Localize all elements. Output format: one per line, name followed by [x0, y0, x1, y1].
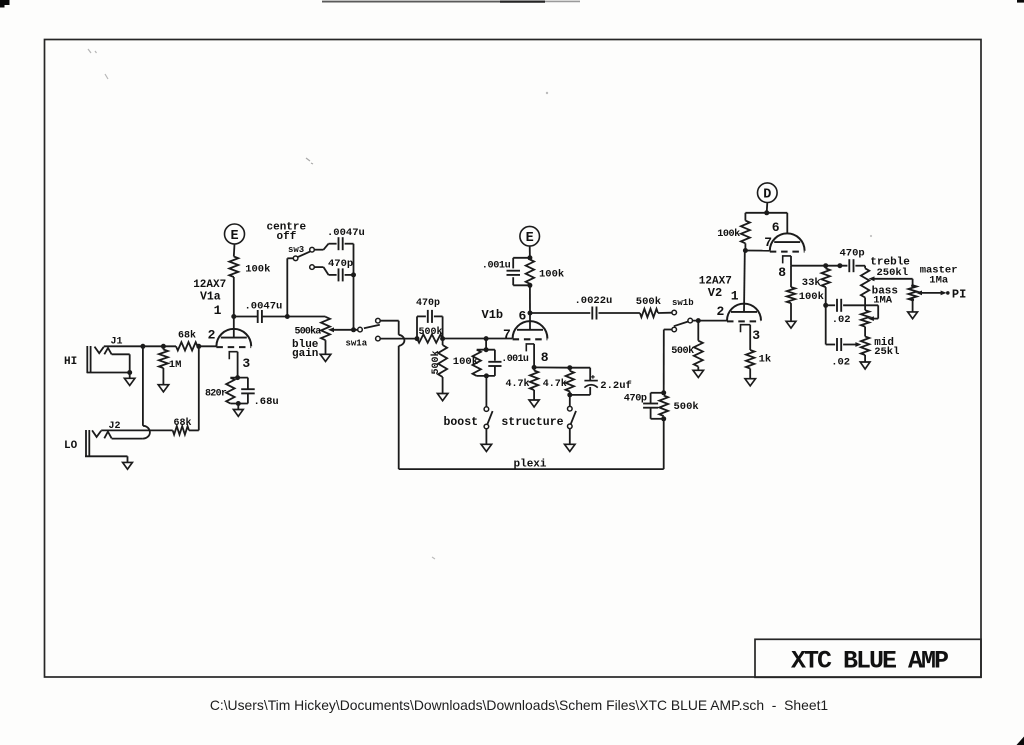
- svg-text:6: 6: [519, 308, 527, 323]
- svg-text:off: off: [277, 231, 297, 243]
- svg-text:E: E: [230, 229, 238, 244]
- svg-text:.02: .02: [832, 314, 851, 326]
- svg-text:V1b: V1b: [482, 308, 504, 322]
- svg-text:V1a: V1a: [200, 291, 221, 304]
- svg-text:1M: 1M: [169, 359, 182, 371]
- svg-text:XTC BLUE AMP: XTC BLUE AMP: [791, 647, 948, 676]
- svg-text:68k: 68k: [178, 330, 196, 342]
- svg-text:500k: 500k: [671, 345, 694, 357]
- svg-text:.68u: .68u: [254, 396, 279, 408]
- svg-text:.001u: .001u: [501, 354, 529, 365]
- svg-text:33k: 33k: [802, 277, 821, 289]
- svg-text:100k: 100k: [245, 264, 270, 276]
- svg-text:25kl: 25kl: [874, 346, 899, 358]
- svg-text:100k: 100k: [539, 268, 564, 280]
- svg-text:12AX7: 12AX7: [193, 279, 226, 291]
- svg-text:8: 8: [541, 350, 549, 365]
- svg-text:470p: 470p: [416, 298, 440, 309]
- svg-text:7: 7: [503, 327, 511, 342]
- svg-text:2.2uf: 2.2uf: [600, 380, 632, 392]
- svg-text:500ka: 500ka: [295, 325, 322, 337]
- svg-text:2: 2: [208, 328, 216, 343]
- svg-text:structure: structure: [501, 416, 563, 429]
- svg-text:E: E: [526, 231, 534, 246]
- svg-text:1Ma: 1Ma: [929, 274, 949, 286]
- svg-text:6: 6: [772, 220, 780, 235]
- svg-text:sw1a: sw1a: [346, 339, 368, 349]
- svg-text:.0022u: .0022u: [575, 295, 613, 307]
- svg-text:1MA: 1MA: [873, 294, 893, 306]
- svg-text:4.7k: 4.7k: [543, 378, 567, 390]
- svg-text:68k: 68k: [174, 417, 192, 429]
- svg-text:gain: gain: [292, 348, 318, 360]
- svg-text:LO: LO: [64, 440, 78, 452]
- svg-text:100k: 100k: [717, 228, 740, 240]
- svg-text:470p: 470p: [624, 393, 647, 404]
- svg-text:.02: .02: [831, 356, 850, 368]
- svg-text:470p: 470p: [840, 247, 865, 259]
- svg-text:HI: HI: [64, 356, 77, 368]
- svg-text:100k: 100k: [799, 291, 824, 303]
- svg-text:4.7k: 4.7k: [506, 378, 530, 390]
- svg-text:2: 2: [717, 304, 725, 319]
- svg-text:1: 1: [731, 288, 739, 303]
- svg-text:250kl: 250kl: [877, 267, 909, 279]
- svg-text:.0047u: .0047u: [245, 301, 283, 313]
- svg-text:plexi: plexi: [514, 458, 547, 470]
- svg-text:sw1b: sw1b: [672, 298, 694, 308]
- svg-text:1k: 1k: [759, 353, 772, 365]
- svg-text:PI: PI: [952, 288, 966, 302]
- svg-text:3: 3: [752, 328, 760, 343]
- svg-text:500k: 500k: [430, 350, 442, 374]
- svg-text:.001u: .001u: [482, 260, 511, 271]
- svg-text:500k: 500k: [419, 326, 443, 338]
- svg-text:500k: 500k: [674, 401, 699, 413]
- svg-text:8: 8: [778, 265, 786, 280]
- svg-text:.0047u: .0047u: [327, 227, 365, 239]
- svg-text:D: D: [763, 188, 771, 203]
- svg-text:sw3: sw3: [288, 245, 304, 255]
- svg-text:1: 1: [214, 303, 222, 318]
- svg-text:100k: 100k: [453, 356, 478, 368]
- svg-text:500k: 500k: [636, 296, 661, 308]
- svg-text:820r: 820r: [205, 389, 227, 400]
- svg-text:C:\Users\Tim Hickey\Documents\: C:\Users\Tim Hickey\Documents\Downloads\…: [210, 697, 829, 713]
- svg-text:470p: 470p: [328, 258, 353, 270]
- svg-text:V2: V2: [708, 286, 722, 300]
- svg-text:boost: boost: [444, 416, 479, 429]
- svg-text:3: 3: [242, 356, 250, 371]
